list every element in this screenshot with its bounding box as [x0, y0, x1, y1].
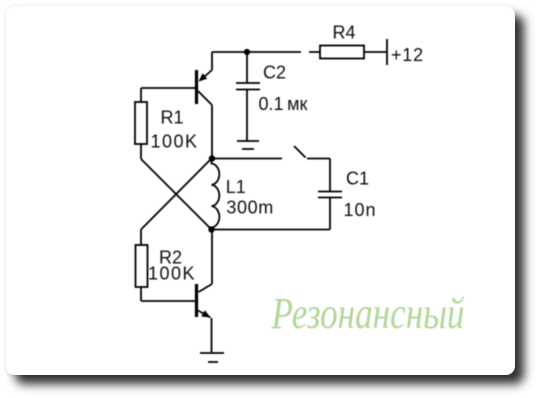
svg-text:100K: 100K [148, 264, 196, 284]
svg-text:R4: R4 [333, 23, 356, 43]
svg-text:300m: 300m [226, 198, 273, 218]
svg-text:L1: L1 [226, 177, 246, 197]
svg-text:C1: C1 [346, 169, 369, 189]
svg-text:Резонансный: Резонансный [271, 289, 465, 338]
svg-text:100K: 100K [151, 132, 199, 152]
svg-text:0.1 мк: 0.1 мк [259, 94, 308, 114]
svg-text:C2: C2 [263, 63, 286, 83]
svg-text:R1: R1 [161, 108, 184, 128]
svg-text:10n: 10n [344, 200, 377, 220]
svg-text:+12: +12 [391, 45, 424, 65]
